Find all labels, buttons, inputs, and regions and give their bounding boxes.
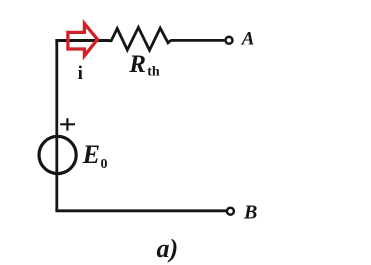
current arrow (red hollow arrow over top wire): [68, 24, 98, 56]
terminal B (open circle): [227, 208, 234, 215]
resistor R_th zigzag: [109, 27, 172, 50]
wire: bottom segment: [55, 209, 226, 212]
terminal A (open circle): [226, 37, 233, 44]
voltage source E0 (circle): [39, 136, 76, 173]
plus sign (polarity of source): [60, 118, 75, 130]
wire: from resistor to terminal A: [171, 39, 225, 42]
svg-text:i: i: [78, 63, 83, 84]
svg-text:B: B: [243, 201, 257, 223]
wire: top segment from corner to resistor: [55, 39, 109, 42]
svg-text:a): a): [157, 234, 179, 263]
svg-text:th: th: [147, 64, 160, 79]
svg-text:E: E: [82, 140, 100, 169]
svg-text:0: 0: [101, 157, 108, 172]
svg-text:A: A: [241, 28, 255, 49]
svg-text:R: R: [128, 51, 146, 78]
wire: left vertical branch: [55, 39, 58, 211]
